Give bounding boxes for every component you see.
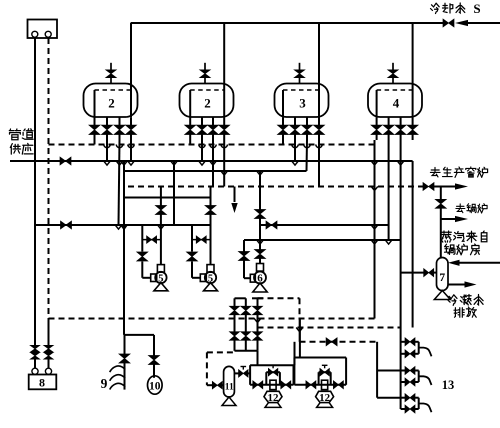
wire: dashed drop solid tail (48, 319, 50, 346)
label: pipe supply 管道供应 (9, 129, 20, 140)
wire+arrow: steam inlet (459, 262, 500, 264)
valve on collector header (60, 157, 71, 165)
svg-text:11: 11 (225, 383, 234, 393)
safety valve on vessel 2 (No.1) (110, 63, 112, 70)
label: cooling water 冷却水 S (431, 3, 440, 13)
valve after filter (with stem) (234, 372, 238, 374)
triple valve manifold (235, 297, 246, 299)
wire: feed drop to vessel 4 (412, 23, 414, 90)
wire: pump supply line (124, 197, 211, 199)
wire: second header (124, 170, 307, 172)
wire: vessel7 feed line (401, 272, 424, 274)
wire: dashed lower header (258, 327, 401, 329)
valve on kiln line (423, 183, 434, 191)
wire: main collector header (10, 160, 413, 162)
vessel 2 (No.1) (84, 84, 138, 118)
wire: feed drop to vessel 2 (No.2) (223, 23, 225, 90)
pump 6 with valves (259, 171, 261, 210)
svg-text:8: 8 (39, 376, 45, 390)
wire: vessel2 pipe1 to header (189, 140, 191, 145)
svg-text:10: 10 (149, 380, 161, 392)
wire: v4 pipe1 long drop (374, 140, 376, 319)
label: steam from boiler room 蒸汽来自 锅炉房 (441, 231, 451, 242)
wire: dashed hose feed line (300, 341, 378, 343)
wire: hose header loop (376, 342, 378, 398)
nozzle circles on supply box (32, 31, 38, 37)
hose station 2 (401, 370, 405, 372)
valve row under vessel 2 (No.2) (189, 117, 191, 125)
wire: dashed corner to filter (207, 351, 235, 353)
wire: dashed link manifold to right (258, 297, 300, 299)
svg-text:12: 12 (268, 392, 280, 404)
hose station 3 (401, 397, 405, 399)
pump 12 unit (No.2) (294, 357, 346, 359)
valve row under vessel 2 (No.1) (94, 117, 96, 125)
label: condensate discharge 冷凝水 排放 (448, 295, 457, 306)
valve on left suction bus (61, 221, 72, 229)
supply box (item 1) (28, 20, 58, 39)
safety valve on vessel 3 (299, 63, 301, 70)
wire: v1 pipes to collector (106, 140, 108, 161)
safety valve on vessel 4 (392, 63, 394, 70)
gauge 10 (ellipse) (148, 376, 163, 394)
nozzle circles on box 8 (32, 368, 38, 374)
valve row under vessel 4 (376, 117, 378, 125)
wire: hose feed drop (299, 319, 301, 342)
wire+arrow: to production kiln (434, 186, 456, 188)
box 8 (29, 375, 57, 390)
svg-text:12: 12 (319, 392, 331, 404)
wire: vessel3 pipe1 to header (282, 140, 284, 145)
pump 5 (No.2) with valves (210, 187, 212, 206)
wire: spine link collector to second header (123, 161, 125, 171)
wire: stub to gauge 10 (153, 365, 155, 378)
wire: drain branch (124, 334, 154, 336)
wire+arrow: condensate outlet (448, 284, 465, 286)
arrow: cooling water inflow (455, 20, 468, 26)
wire: v4 pipe2 drop (388, 140, 390, 225)
wire: v2 pipe3 drop (212, 140, 214, 187)
wire: riser to unit2 (299, 319, 301, 358)
double valve on dashed drop (44, 345, 54, 352)
wire+arrow: to boiler (440, 209, 442, 220)
wire: steam drop to vessel 7 (440, 219, 442, 259)
svg-text:2: 2 (204, 96, 211, 111)
svg-text:S: S (473, 1, 480, 16)
valve on vessel7 feed (424, 269, 434, 277)
wire: v4 pipe3 long drop (400, 140, 402, 328)
svg-text:7: 7 (439, 272, 445, 284)
wire: dashed kiln header (128, 186, 423, 188)
wire: v4 pipe4 long drop (412, 161, 414, 328)
vessel 4 (368, 84, 422, 118)
valve on line 10 (149, 356, 160, 365)
label: to production kiln 去生产窑炉 (430, 167, 440, 177)
wire: left suction bus (35, 224, 211, 226)
wire: dashed pipe-supply header (49, 144, 375, 146)
wire: v3 pipe4 end (318, 140, 320, 187)
wire: long dashed bus (49, 318, 375, 320)
double valve on solid drop (30, 345, 40, 352)
label: to boiler 去锅炉 (456, 204, 465, 213)
wire: v4 pipe2 stub (388, 225, 390, 240)
vessel 7 (steam trap) (437, 258, 449, 291)
wire: top cooling-water bus (131, 22, 443, 24)
svg-text:13: 13 (442, 378, 455, 392)
wire: vessel7 feed tail (434, 272, 437, 274)
wire: solid drop from supply box (34, 38, 36, 346)
pump 12 unit (No.1) (250, 364, 293, 366)
wire: v2 pipe2 to collector (201, 140, 203, 161)
wire: v2 pipe4 drop (223, 140, 225, 187)
valve before filter (207, 384, 212, 386)
svg-text:4: 4 (393, 96, 400, 111)
wire: link collector to suction bus (173, 161, 175, 225)
wire: header y240 (244, 239, 401, 241)
wire+arrow: manifold feed from kiln header (234, 187, 236, 203)
wire: vessel1 pipe1 to header (94, 140, 96, 145)
svg-text:9: 9 (101, 376, 108, 391)
hose station 1 (401, 341, 405, 343)
valve on cooling water inlet (443, 19, 454, 27)
vessel 2 (No.2) (180, 84, 234, 118)
wire: drain line vertical (123, 171, 125, 335)
safety valve on vessel 2 (No.2) (204, 63, 206, 70)
wire: v3 pipe3 end (306, 140, 309, 171)
wire: feed drop to vessel 3 (318, 23, 320, 90)
svg-text:2: 2 (108, 96, 115, 111)
svg-text:3: 3 (299, 96, 306, 111)
valve on boiler branch (435, 199, 446, 208)
wire: v1 pipe3 to suction bus (119, 140, 120, 225)
wire: boiler branch drop (440, 187, 442, 200)
wire: dashed drop from supply box (48, 38, 50, 319)
valve row under vessel 3 (282, 117, 284, 125)
wire: hose station column (400, 328, 402, 410)
valve on hose feed line (326, 338, 337, 346)
vessel 3 (275, 84, 329, 118)
wire: right header y225 (260, 224, 389, 226)
wire: v3 pipe2 to collector (294, 140, 296, 161)
filter capsule (224, 366, 235, 397)
valve on right header y225 (266, 221, 277, 229)
valve on coil line (119, 354, 130, 363)
wire: coil line tail (124, 363, 126, 390)
coil 9 (hose coil) (110, 366, 126, 372)
pump 5 (No.1) with valves (160, 187, 162, 206)
wire: feed drop to vessel 2 (No.1) (130, 23, 132, 90)
wire: riser to unit1 (294, 342, 296, 365)
